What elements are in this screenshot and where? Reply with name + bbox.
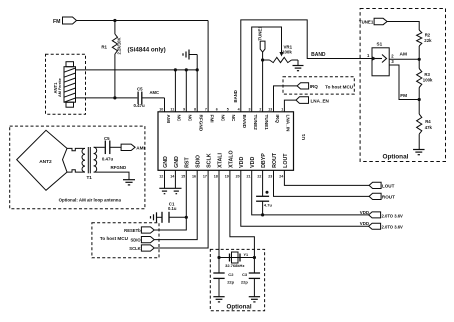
IC top pin numbers bbox=[159, 107, 283, 111]
wire VDD (pin 20) bbox=[241, 170, 369, 226]
svg-text:SDIO: SDIO bbox=[196, 155, 202, 168]
ground at C1 bbox=[151, 212, 157, 222]
wire VDD (pin 21) bbox=[252, 170, 369, 216]
svg-text:1: 1 bbox=[281, 107, 283, 111]
svg-text:11: 11 bbox=[170, 107, 174, 111]
node junctions on RFGND line bbox=[174, 68, 199, 71]
wire crystal net bbox=[217, 256, 256, 259]
svg-text:4: 4 bbox=[238, 107, 240, 111]
crystal Y1 32.768kHz bbox=[225, 252, 248, 268]
svg-text:RFGND: RFGND bbox=[111, 165, 127, 170]
svg-text:FM: FM bbox=[53, 19, 61, 25]
wire SCLK bbox=[154, 170, 208, 248]
wire XTALO bbox=[230, 170, 255, 257]
svg-text:C5: C5 bbox=[104, 136, 110, 141]
svg-text:22: 22 bbox=[257, 174, 261, 178]
ground at C2 bbox=[213, 297, 224, 302]
svg-text:22p: 22p bbox=[227, 280, 234, 285]
wire NC pin drops bbox=[175, 70, 197, 112]
dashed box To host MCU (IRQ) bbox=[283, 77, 354, 94]
connector TUNE1 (right box) bbox=[359, 18, 387, 24]
connector LNA_EN bbox=[296, 97, 330, 104]
svg-text:R3: R3 bbox=[424, 72, 430, 77]
capacitor C2 22p bbox=[213, 258, 234, 297]
wire S1 pin3 to FM node bbox=[389, 65, 419, 100]
svg-text:Y1: Y1 bbox=[244, 253, 249, 257]
wire IRQ bbox=[274, 86, 298, 112]
svg-text:BAND: BAND bbox=[242, 115, 247, 129]
svg-text:NC: NC bbox=[177, 115, 182, 122]
svg-text:47k: 47k bbox=[425, 125, 433, 130]
note (Si4844 only) bbox=[128, 47, 166, 54]
svg-text:RST: RST bbox=[185, 157, 191, 168]
svg-text:AMI: AMI bbox=[136, 146, 144, 151]
wire LOUT bbox=[284, 170, 369, 185]
svg-text:0.47u: 0.47u bbox=[134, 103, 146, 108]
svg-text:24: 24 bbox=[279, 174, 283, 178]
wire ANT1 top to RFGND bbox=[76, 69, 198, 71]
svg-text:SCLK: SCLK bbox=[129, 246, 140, 251]
svg-text:RFGND: RFGND bbox=[199, 115, 204, 132]
connector RESETb bbox=[124, 227, 154, 233]
svg-text:AMC: AMC bbox=[150, 90, 160, 95]
connector SCLK bbox=[129, 245, 154, 251]
svg-text:FMI: FMI bbox=[209, 115, 214, 123]
svg-text:GND: GND bbox=[174, 156, 180, 168]
svg-text:2.2k/10K: 2.2k/10K bbox=[116, 38, 121, 55]
dashed box Optional AM air loop antenna bbox=[10, 126, 145, 209]
svg-text:LNA_EN: LNA_EN bbox=[311, 98, 330, 103]
svg-text:TUNE1: TUNE1 bbox=[264, 115, 269, 131]
capacitor C1 0.1u on RST bbox=[157, 202, 187, 223]
svg-text:0.1u: 0.1u bbox=[168, 206, 177, 211]
svg-text:17: 17 bbox=[203, 174, 207, 178]
capacitor C5 0.47u (loop) bbox=[102, 136, 121, 162]
connector AMI bbox=[121, 144, 145, 150]
svg-text:T1: T1 bbox=[87, 175, 93, 180]
svg-text:10: 10 bbox=[159, 107, 163, 111]
wire ANT1 bottom (AMI net) bbox=[76, 97, 138, 99]
svg-text:C3: C3 bbox=[242, 272, 248, 277]
svg-text:NC: NC bbox=[231, 115, 236, 122]
svg-text:AMI: AMI bbox=[166, 115, 171, 124]
svg-text:8: 8 bbox=[194, 107, 196, 111]
wire GND pins bbox=[165, 170, 176, 188]
wire FM net (top) bbox=[77, 21, 209, 112]
svg-text:14: 14 bbox=[170, 174, 174, 178]
svg-text:Optional: Optional bbox=[227, 304, 252, 311]
svg-text:23: 23 bbox=[268, 174, 272, 178]
svg-text:7: 7 bbox=[205, 107, 207, 111]
svg-text:SCLK: SCLK bbox=[207, 153, 213, 168]
svg-text:LOUT: LOUT bbox=[283, 153, 289, 168]
svg-text:AM: AM bbox=[400, 51, 407, 57]
svg-text:U1: U1 bbox=[301, 134, 307, 140]
dashed box Optional (crystal) bbox=[210, 249, 264, 310]
ferrite antenna ANT1 (dashed box) bbox=[46, 54, 86, 114]
transformer T1 bbox=[82, 147, 97, 180]
svg-text:GND: GND bbox=[163, 156, 169, 168]
wire T1 right winding top (to C5) bbox=[94, 146, 105, 148]
svg-text:5: 5 bbox=[227, 107, 229, 111]
resistor R1 2.2k/10K bbox=[101, 21, 121, 98]
svg-text:LOUT: LOUT bbox=[382, 184, 395, 189]
svg-text:2.0TO 3.6V: 2.0TO 3.6V bbox=[382, 213, 404, 218]
svg-text:S1: S1 bbox=[377, 41, 383, 46]
connector LOUT bbox=[369, 182, 394, 188]
svg-text:NC: NC bbox=[188, 115, 193, 122]
svg-text:16: 16 bbox=[192, 174, 196, 178]
ground at C3 bbox=[249, 297, 260, 302]
wire TUNE2 to VR1 wiper bbox=[252, 27, 284, 112]
resistor VR1 100k potentiometer bbox=[270, 45, 293, 63]
svg-text:NC: NC bbox=[220, 115, 225, 122]
svg-text:6: 6 bbox=[216, 107, 218, 111]
capacitor C3 22p bbox=[241, 258, 260, 297]
svg-text:R2: R2 bbox=[425, 33, 431, 38]
connector VDD 1 bbox=[360, 210, 403, 219]
svg-text:VDD: VDD bbox=[360, 210, 369, 215]
node AM bbox=[400, 51, 421, 61]
ground RFGND (loop) bbox=[123, 180, 135, 185]
wire T1 to RFGND bbox=[94, 165, 129, 180]
capacitor C4 (DBYP) bbox=[256, 170, 272, 215]
wire S1 pin2 to AM node bbox=[389, 58, 419, 60]
svg-text:C2: C2 bbox=[228, 272, 234, 277]
IC U1 Si4844 bbox=[158, 112, 307, 171]
svg-text:13: 13 bbox=[268, 107, 272, 111]
svg-text:IRQ: IRQ bbox=[310, 84, 319, 89]
svg-text:100k: 100k bbox=[423, 78, 433, 83]
connector SDIO bbox=[130, 237, 154, 243]
svg-text:22k: 22k bbox=[424, 38, 432, 43]
node FM bbox=[400, 93, 421, 101]
svg-text:Optional: AM air loop antenna: Optional: AM air loop antenna bbox=[59, 198, 122, 203]
svg-text:VDD: VDD bbox=[250, 157, 256, 168]
connector VDD 2 bbox=[360, 221, 403, 230]
node R1/FM junction bbox=[113, 19, 116, 22]
svg-text:15: 15 bbox=[181, 174, 185, 178]
antenna ANT2 loop bbox=[17, 130, 83, 190]
connector IRQ bbox=[297, 83, 318, 89]
ground GND pins bbox=[159, 188, 181, 193]
svg-text:ROUT: ROUT bbox=[272, 152, 278, 168]
svg-text:0.47u: 0.47u bbox=[102, 157, 114, 162]
switch S1 bbox=[367, 41, 394, 76]
connector ROUT bbox=[369, 193, 395, 199]
svg-text:XTALI: XTALI bbox=[217, 152, 223, 167]
flag TUNE1 (vertical) bbox=[257, 26, 265, 52]
svg-text:VDD: VDD bbox=[239, 157, 245, 168]
wire ROUT bbox=[274, 170, 370, 196]
svg-text:4.7u: 4.7u bbox=[264, 203, 273, 208]
wire BAND net bbox=[233, 20, 372, 112]
resistor R4 47k bbox=[417, 100, 433, 150]
svg-text:BAND: BAND bbox=[233, 90, 238, 102]
svg-text:LNA_IN: LNA_IN bbox=[286, 115, 291, 133]
dashed box Optional (band switch) bbox=[360, 9, 445, 162]
svg-text:2: 2 bbox=[259, 107, 261, 111]
svg-text:To host MCU: To host MCU bbox=[325, 85, 354, 90]
wire LNA_EN bbox=[284, 100, 296, 112]
svg-text:100k: 100k bbox=[282, 50, 292, 55]
svg-text:AM Ferrite: AM Ferrite bbox=[58, 78, 62, 97]
resistor R3 100k bbox=[417, 59, 433, 99]
svg-text:12: 12 bbox=[159, 174, 163, 178]
svg-text:32.768kHz: 32.768kHz bbox=[225, 263, 244, 268]
node R1/AMI junction bbox=[113, 96, 116, 99]
svg-text:R4: R4 bbox=[425, 119, 431, 124]
wire TUNE1 to R2 bbox=[387, 22, 419, 31]
svg-text:ROUT: ROUT bbox=[382, 195, 395, 200]
svg-text:22p: 22p bbox=[241, 280, 248, 285]
svg-text:Optional: Optional bbox=[383, 154, 409, 161]
net label AMC bbox=[150, 90, 160, 95]
svg-text:21: 21 bbox=[247, 174, 251, 178]
wire RST bbox=[154, 170, 188, 230]
IC top pin labels bbox=[166, 115, 291, 133]
dashed box To host MCU (serial) bbox=[92, 223, 159, 258]
resistor R2 22k bbox=[417, 30, 432, 59]
svg-text:IRQ: IRQ bbox=[275, 115, 280, 124]
IC bottom pin numbers bbox=[159, 174, 283, 178]
wire SDIO bbox=[154, 170, 197, 239]
ground at RFGND line bbox=[183, 50, 197, 70]
svg-text:2.0TO 3.6V: 2.0TO 3.6V bbox=[382, 225, 404, 230]
wire XTALI bbox=[218, 170, 220, 257]
svg-text:VDD: VDD bbox=[360, 221, 369, 226]
connector FM bbox=[53, 17, 77, 25]
capacitor C5 0.47u (ferrite to AMI) bbox=[134, 87, 165, 112]
ground (band divider) bbox=[413, 150, 425, 155]
antenna ANT1 ferrite rod bbox=[53, 62, 75, 107]
svg-text:SDIO: SDIO bbox=[130, 238, 141, 243]
ground at VR1 right end bbox=[292, 60, 304, 71]
svg-text:R1: R1 bbox=[101, 45, 107, 50]
svg-text:(Si4844 only): (Si4844 only) bbox=[128, 47, 166, 54]
svg-text:20: 20 bbox=[236, 174, 240, 178]
svg-text:DBYP: DBYP bbox=[261, 153, 267, 168]
svg-text:C5: C5 bbox=[137, 87, 143, 92]
svg-text:BAND: BAND bbox=[311, 52, 326, 58]
wire T1 left winding bbox=[83, 148, 86, 172]
svg-text:XTALO: XTALO bbox=[228, 150, 234, 168]
svg-text:TUNE1: TUNE1 bbox=[359, 20, 374, 25]
svg-text:ANT2: ANT2 bbox=[39, 159, 52, 165]
svg-text:FM: FM bbox=[400, 93, 407, 99]
svg-text:TUNE2: TUNE2 bbox=[253, 115, 258, 131]
svg-text:9: 9 bbox=[183, 107, 185, 111]
wire TUNE1 to VR1 left end bbox=[261, 52, 270, 112]
IC bottom pin labels bbox=[163, 150, 289, 168]
svg-text:19: 19 bbox=[225, 174, 229, 178]
svg-text:To host MCU: To host MCU bbox=[100, 236, 129, 241]
svg-text:18: 18 bbox=[214, 174, 218, 178]
svg-text:RESETb: RESETb bbox=[124, 228, 141, 233]
svg-text:3: 3 bbox=[249, 107, 251, 111]
svg-text:TUNE1: TUNE1 bbox=[257, 26, 262, 41]
